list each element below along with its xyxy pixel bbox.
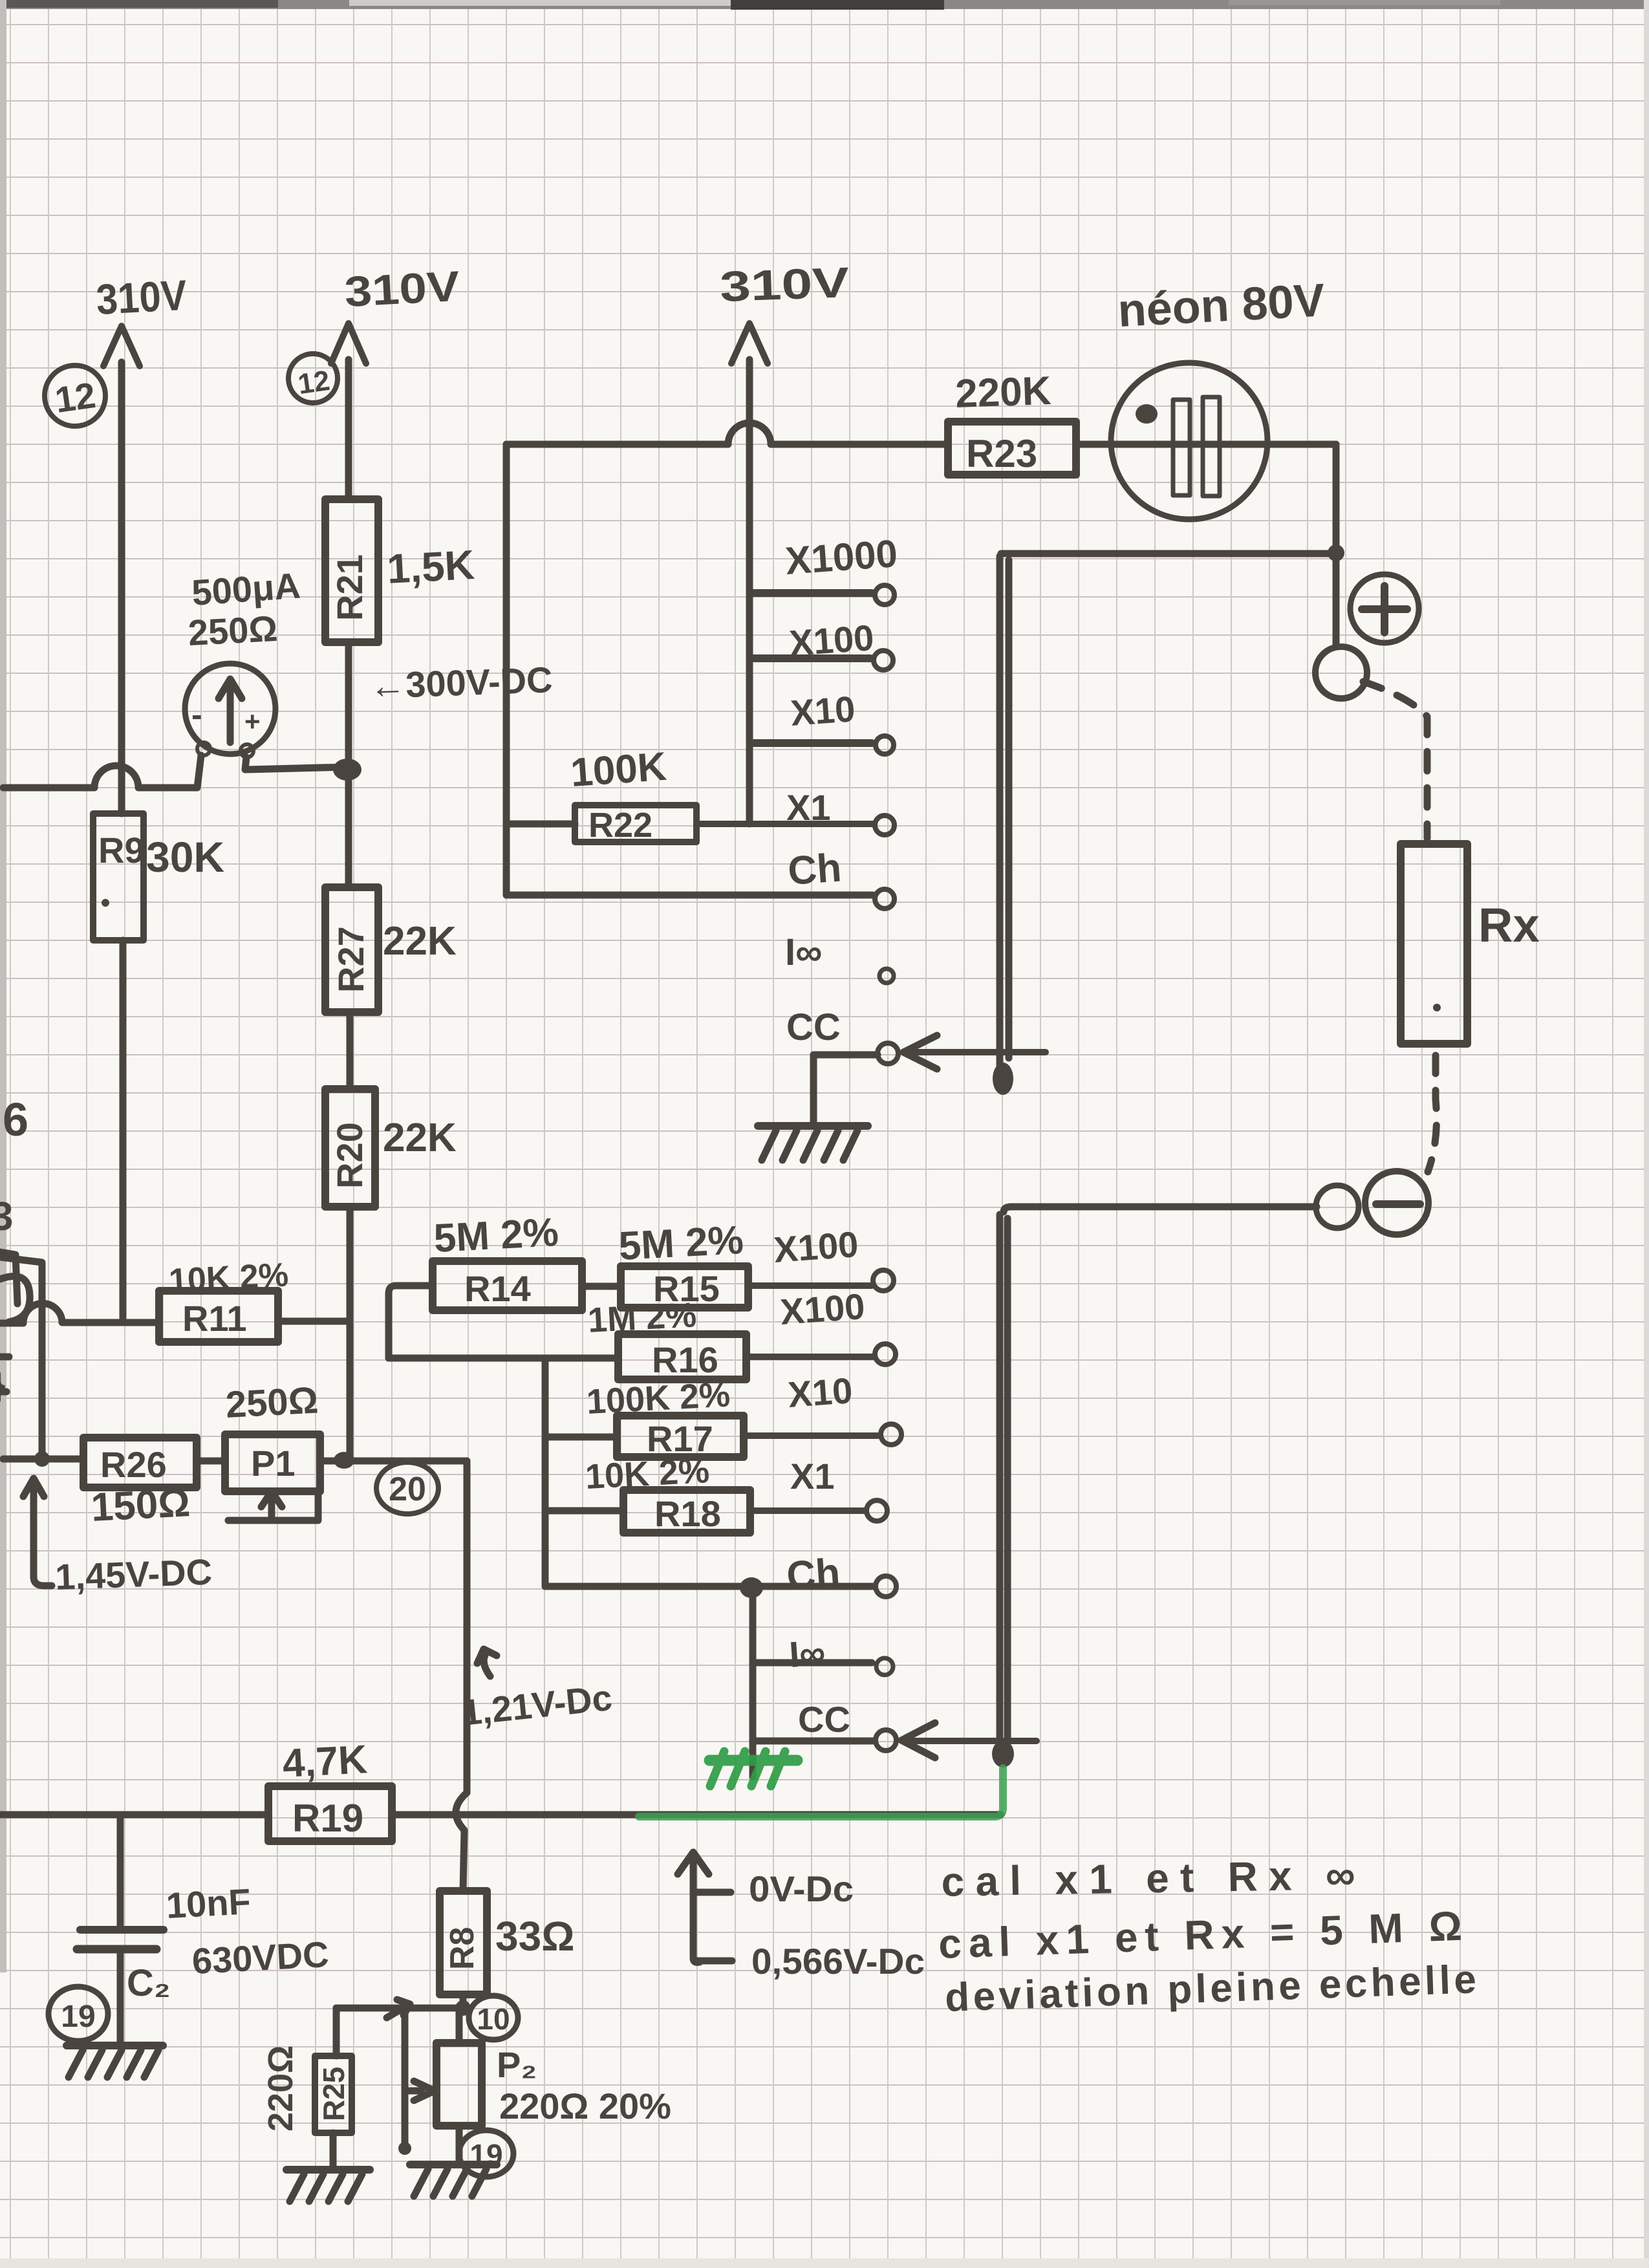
wire minus terminal horizontal xyxy=(1004,1207,1317,1212)
annotation bracket 0V-DC / 0,566V-DC xyxy=(693,1857,700,1962)
switch bank 1 bus vertical xyxy=(746,593,753,824)
annotation arrow 1,21V-DC xyxy=(484,1653,490,1676)
svg-text:220Ω: 220Ω xyxy=(261,2046,300,2132)
svg-text:10K 2%: 10K 2% xyxy=(584,1451,710,1496)
junction dot R26 bus xyxy=(34,1451,50,1467)
wire R11 right to node xyxy=(278,1318,350,1325)
resistor R19 xyxy=(268,1786,392,1841)
contact X1 (bank1) with R22 right wire xyxy=(696,821,873,827)
svg-text:X1: X1 xyxy=(790,1456,835,1496)
wire 310V arrow stem (third rail) xyxy=(746,360,753,593)
wire R17 left xyxy=(545,1434,617,1441)
terminal minus symbol xyxy=(1365,1171,1428,1235)
svg-text:P1: P1 xyxy=(251,1443,296,1484)
contact X10 (bank2) xyxy=(746,1354,873,1360)
contact X1000 xyxy=(751,589,872,597)
resistor R9 xyxy=(93,814,144,940)
resistor R26 xyxy=(83,1438,197,1487)
partial component at left edge xyxy=(0,1276,30,1322)
svg-text:R11: R11 xyxy=(182,1298,247,1339)
wire below R21 to node xyxy=(345,642,352,887)
svg-text:X10: X10 xyxy=(789,688,856,733)
svg-text:310V: 310V xyxy=(719,258,850,310)
svg-text:R22: R22 xyxy=(588,806,652,845)
wire meter plus terminal to node xyxy=(245,757,347,770)
ground below C2 xyxy=(67,2042,163,2049)
svg-text:12: 12 xyxy=(296,365,332,400)
junction dot neon branch xyxy=(1328,545,1344,561)
wire bank2 lower bus vertical xyxy=(749,1588,757,1777)
wire double vertical from minus terminal down to CC2 xyxy=(997,1215,1004,1753)
svg-text:R26: R26 xyxy=(100,1444,167,1485)
wire P2 wiper vertical xyxy=(402,2008,409,2147)
green ground hatch (bank2) xyxy=(709,1751,797,1786)
green highlighted wire from R19 to CC junction xyxy=(639,1768,1003,1817)
svg-text:4,7K: 4,7K xyxy=(281,1737,369,1786)
P1 wiper bar and arrow xyxy=(228,1493,318,1520)
svg-text:12: 12 xyxy=(52,374,98,420)
node 19 (circle, right) xyxy=(459,2130,513,2177)
capacitor C2 xyxy=(117,1815,124,1928)
svg-text:Rx: Rx xyxy=(1478,898,1540,952)
svg-text:33Ω: 33Ω xyxy=(495,1913,575,1960)
svg-text:250Ω: 250Ω xyxy=(224,1379,319,1426)
svg-text:X1: X1 xyxy=(786,787,831,828)
resistor R25 xyxy=(333,2008,340,2056)
resistor R18 xyxy=(623,1490,750,1533)
resistor R16 xyxy=(618,1334,746,1379)
svg-text:←300V-DC: ←300V-DC xyxy=(369,659,553,706)
svg-text:I∞: I∞ xyxy=(788,1632,826,1675)
svg-text:X1000: X1000 xyxy=(784,532,899,583)
wire bank2 left bus horizontal xyxy=(389,1355,618,1362)
wire left vertical to R26 bus xyxy=(0,1257,42,1459)
wire P1 right to vertical xyxy=(320,1458,467,1465)
svg-text:20: 20 xyxy=(389,1471,426,1508)
wire bottom-left bus with hop over left rail xyxy=(3,766,197,788)
terminal plus symbol xyxy=(1350,574,1419,643)
svg-text:19: 19 xyxy=(469,2138,502,2172)
wire into R26 xyxy=(3,1456,83,1463)
ground (bank1) xyxy=(758,1122,868,1130)
svg-text:+: + xyxy=(244,706,261,737)
svg-text:5M 2%: 5M 2% xyxy=(433,1210,559,1261)
svg-text:10nF: 10nF xyxy=(165,1881,252,1926)
junction dot R8 bottom xyxy=(455,2000,471,2016)
junction blob below CC wiper xyxy=(993,1063,1013,1095)
resistor Rx xyxy=(1401,844,1467,1044)
svg-text:-: - xyxy=(191,697,202,733)
wire bank2 branch vertical xyxy=(542,1358,549,1586)
dashed lead from plus terminal xyxy=(1363,682,1427,838)
contact R18 right (bank2) xyxy=(750,1507,865,1514)
svg-text:néon 80V: néon 80V xyxy=(1117,274,1326,337)
svg-text:X100: X100 xyxy=(788,617,875,664)
wire vertical from P1 node down with hop over R19 wire xyxy=(464,1461,471,1793)
wire R26 to P1 xyxy=(197,1458,225,1465)
svg-text:30K: 30K xyxy=(146,833,224,881)
svg-text:100K 2%: 100K 2% xyxy=(585,1375,731,1421)
potentiometer P2 xyxy=(456,2008,463,2043)
svg-text:R18: R18 xyxy=(654,1493,721,1534)
resistor R8 xyxy=(440,1891,487,1994)
svg-text:CC: CC xyxy=(798,1699,850,1740)
wire CC to ground (bank1) xyxy=(814,1055,878,1125)
wire R22 left xyxy=(506,821,575,828)
svg-text:X10: X10 xyxy=(786,1370,854,1415)
wire edge stub upper xyxy=(0,1252,17,1304)
svg-text:5M 2%: 5M 2% xyxy=(618,1218,744,1269)
wire below R20 down to P1 node xyxy=(347,1207,354,1461)
wire 310V arrow stem (left rail) xyxy=(118,362,125,814)
resistor R21 xyxy=(325,499,378,642)
wire R14 left bus xyxy=(389,1286,433,1358)
resistor R11 xyxy=(159,1291,278,1342)
meter M (galvanometer) xyxy=(185,664,275,754)
svg-text:Ch: Ch xyxy=(785,1550,841,1599)
svg-text:0,566V-Dc: 0,566V-Dc xyxy=(751,1941,925,1982)
contact X1 lead (bank2) xyxy=(744,1432,878,1439)
svg-text:250Ω: 250Ω xyxy=(187,608,278,653)
svg-text:10: 10 xyxy=(477,2002,510,2036)
svg-text:310V: 310V xyxy=(95,271,188,323)
wire R27 to R20 xyxy=(347,1012,354,1089)
wire P2 bottom xyxy=(456,2126,463,2163)
svg-text:1,5K: 1,5K xyxy=(386,541,476,592)
svg-text:R16: R16 xyxy=(652,1339,718,1380)
wire bottom bus R25/R8/P2 xyxy=(336,2005,463,2012)
resistor R23 xyxy=(948,422,1076,475)
wire neon right corner down xyxy=(1333,444,1340,645)
junction blob at CC2 xyxy=(992,1740,1014,1767)
svg-text:X100: X100 xyxy=(779,1286,866,1332)
terminal plus lug xyxy=(1315,647,1367,698)
svg-text:22K: 22K xyxy=(383,1116,457,1160)
svg-text:1,45V-DC: 1,45V-DC xyxy=(54,1551,213,1597)
node 12 (circle, second) xyxy=(288,354,338,403)
resistor R17 xyxy=(617,1416,744,1457)
svg-text:R20: R20 xyxy=(329,1122,370,1189)
svg-text:220Ω 20%: 220Ω 20% xyxy=(499,2086,671,2126)
svg-text:P₂: P₂ xyxy=(497,2044,537,2085)
wire R11 left with hop xyxy=(0,1304,159,1323)
P2 wiper arrow xyxy=(405,2081,435,2101)
resistor R27 xyxy=(325,887,378,1012)
contact X100 upper (bank2) xyxy=(748,1282,872,1289)
wire double vertical from neon branch to CC wiper xyxy=(997,556,1004,1067)
svg-text:0V-Dc: 0V-Dc xyxy=(749,1868,854,1909)
resistor R15 xyxy=(621,1266,748,1308)
neon lamp 80V xyxy=(1111,363,1267,519)
contact X10 (bank1) xyxy=(751,739,872,747)
annotation arrow 1,45V-DC xyxy=(34,1485,52,1586)
svg-text:R25: R25 xyxy=(317,2067,350,2121)
svg-text:R14: R14 xyxy=(464,1268,531,1309)
wire R8 bottom xyxy=(460,1994,467,2008)
resistor R20 xyxy=(325,1089,375,1207)
svg-text:10K 2%: 10K 2% xyxy=(168,1256,290,1300)
svg-text:500μA: 500μA xyxy=(190,565,301,613)
node 20 (circle) xyxy=(376,1462,438,1514)
svg-text:310V: 310V xyxy=(343,262,461,316)
svg-text:R23: R23 xyxy=(966,432,1037,475)
svg-text:Ch: Ch xyxy=(786,845,843,894)
svg-text:6: 6 xyxy=(3,1094,28,1146)
node 12 (circle, left) xyxy=(45,365,105,426)
svg-text:630VDC: 630VDC xyxy=(191,1934,330,1982)
potentiometer P1 xyxy=(225,1434,320,1491)
node 10 (circle) xyxy=(469,1996,518,2040)
svg-text:1M 2%: 1M 2% xyxy=(587,1295,697,1340)
svg-text:100K: 100K xyxy=(569,744,668,795)
svg-text:150Ω: 150Ω xyxy=(90,1480,191,1530)
wire R19 right (to CC junction) xyxy=(392,1811,1001,1819)
arrowhead 310V third xyxy=(731,323,768,363)
svg-text:R21: R21 xyxy=(329,554,370,621)
svg-text:X100: X100 xyxy=(772,1224,859,1270)
node 19 (circle, left) xyxy=(48,1987,108,2041)
svg-text:C₂: C₂ xyxy=(127,1962,171,2004)
wire below R9 xyxy=(120,940,127,1321)
wire branch to double vertical xyxy=(1001,550,1336,557)
svg-text:22K: 22K xyxy=(383,919,457,964)
junction dot P1 node xyxy=(334,1452,354,1469)
wire left edge of switch box xyxy=(503,444,510,895)
wire R19 left xyxy=(0,1811,268,1819)
wire R18 left xyxy=(545,1507,623,1515)
junction dot meter/plus node xyxy=(333,759,361,781)
wire R14-R15 link xyxy=(582,1283,621,1290)
wire 310V arrow stem (second rail) xyxy=(345,360,352,499)
resistor R14 xyxy=(433,1261,582,1310)
svg-text:220K: 220K xyxy=(954,369,1052,416)
svg-text:}: } xyxy=(0,1363,6,1405)
terminal minus lug xyxy=(1316,1185,1359,1228)
wire meter minus terminal down xyxy=(197,755,201,788)
svg-text:R9: R9 xyxy=(98,830,145,870)
svg-text:I∞: I∞ xyxy=(785,931,822,973)
arrowhead 310V second xyxy=(331,323,366,363)
svg-text:CC: CC xyxy=(786,1006,841,1048)
dashed lead below Rx xyxy=(1428,1055,1437,1172)
svg-text:3: 3 xyxy=(0,1194,13,1239)
ground below R25 xyxy=(286,2166,370,2174)
ground below P2 xyxy=(410,2161,497,2168)
arrow mark on bottom bus xyxy=(387,2000,410,2018)
svg-text:R27: R27 xyxy=(330,926,371,993)
svg-text:R19: R19 xyxy=(292,1797,363,1840)
svg-text:19: 19 xyxy=(61,2000,95,2034)
contact X100 (bank1) xyxy=(751,654,870,662)
arrowhead 310V left xyxy=(103,326,140,366)
wire R23 to neon xyxy=(1076,441,1336,448)
resistor R22 xyxy=(575,805,696,842)
svg-text:R8: R8 xyxy=(444,1927,481,1970)
wire top bus with hop over 310V rail, to R23 xyxy=(506,423,948,444)
wire R25 bottom xyxy=(330,2133,337,2168)
